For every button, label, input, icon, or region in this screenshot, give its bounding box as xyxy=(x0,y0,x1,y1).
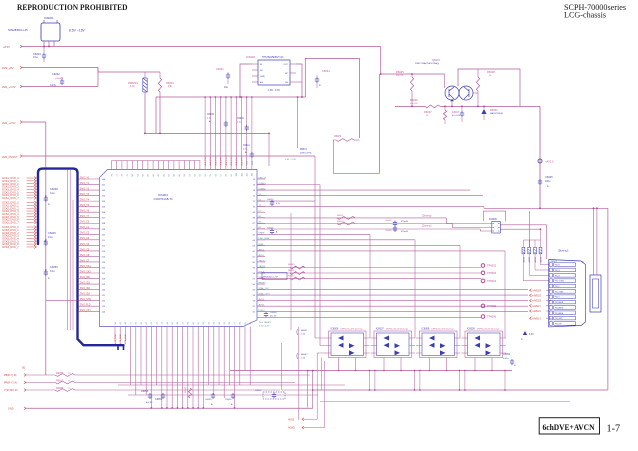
svg-text:10u: 10u xyxy=(224,86,229,89)
wire resistor array feeds xyxy=(523,228,541,240)
svg-text:+AV2E: +AV2E xyxy=(528,256,531,263)
bus labels GCK2_DVO[0:7] xyxy=(2,201,36,225)
svg-text:GND: GND xyxy=(260,76,265,78)
svg-text:TP6002: TP6002 xyxy=(487,264,497,268)
regulator IC6005 xyxy=(489,218,500,233)
resistor R6042 xyxy=(297,353,308,360)
svg-text:GCK2_DVO_7: GCK2_DVO_7 xyxy=(2,221,19,225)
svg-text:AVD_P33: AVD_P33 xyxy=(204,157,207,165)
capacitor C6039 xyxy=(385,226,408,233)
svg-text:0.47u: 0.47u xyxy=(50,84,57,87)
svg-text:AVD_P33: AVD_P33 xyxy=(220,157,223,165)
svg-text:AVD_RGB: AVD_RGB xyxy=(114,334,117,344)
polarity marker A 6.3V xyxy=(521,331,534,341)
capacitor C6001 xyxy=(216,67,230,89)
svg-text:DNF50-510-472 (Dummy): DNF50-510-472 (Dummy) xyxy=(477,329,499,331)
svg-text:+AVE1G: +AVE1G xyxy=(532,295,541,298)
svg-text:DVO_ID0: DVO_ID0 xyxy=(80,277,91,279)
svg-text:SD: SD xyxy=(22,368,26,370)
svg-text:DVO_C5: DVO_C5 xyxy=(80,249,90,251)
svg-text:C6045: C6045 xyxy=(545,175,553,179)
op-amp U IC6004 CXD9731GB encoder body xyxy=(100,170,258,327)
svg-text:IC6006: IC6006 xyxy=(331,328,339,331)
svg-text:C6039: C6039 xyxy=(385,230,392,232)
resistor R6040 xyxy=(185,386,192,398)
svg-text:DVO_ID2: DVO_ID2 xyxy=(80,288,91,290)
wire AVD_DVOUT xyxy=(2,155,315,159)
resistor R6028 xyxy=(476,69,495,106)
wire IC6005 outputs xyxy=(500,211,547,259)
svg-text:+AV2E: +AV2E xyxy=(522,256,525,263)
svg-text:C6051: C6051 xyxy=(503,353,511,356)
resistor R6025 xyxy=(396,70,414,106)
svg-text:C6053: C6053 xyxy=(141,390,149,393)
test point TP6004 xyxy=(481,279,496,283)
svg-text:DVE_+8V: DVE_+8V xyxy=(2,66,14,70)
svg-text:AVD_P33: AVD_P33 xyxy=(214,157,217,165)
wire IC6005 bridge xyxy=(484,211,506,221)
svg-text:C6056: C6056 xyxy=(225,399,232,401)
svg-text:DVO_C0: DVO_C0 xyxy=(80,222,90,224)
svg-text:+AVE1Y: +AVE1Y xyxy=(532,305,541,308)
resistor R6026 xyxy=(410,98,440,108)
wire thick digital video bus highlight xyxy=(38,169,124,350)
QFP top pin net labels xyxy=(204,157,254,165)
resistor R6004 xyxy=(158,72,174,134)
wire IC6002 output link xyxy=(305,58,359,138)
svg-text:DVO_CK2: DVO_CK2 xyxy=(80,271,91,273)
node DVE_+8V input wire xyxy=(2,66,160,72)
svg-text:GCK1_DVO_7: GCK1_DVO_7 xyxy=(2,196,19,200)
node SDTV label xyxy=(22,368,26,370)
svg-text:AVD_DVOUT: AVD_DVOUT xyxy=(2,155,18,159)
capacitor C6011 xyxy=(243,145,254,158)
wire base rail xyxy=(380,73,445,75)
capacitor C6013 xyxy=(267,199,280,206)
svg-text:0.5V - 2.4V: 0.5V - 2.4V xyxy=(285,159,296,161)
svg-text:C6001: C6001 xyxy=(216,67,224,71)
diode D6001 xyxy=(444,106,504,121)
svg-text:470p-M: 470p-M xyxy=(401,221,408,223)
svg-text:TP6005: TP6005 xyxy=(487,304,497,308)
svg-text:2SB1219A(2SB1219AQ): 2SB1219A(2SB1219AQ) xyxy=(415,62,439,65)
svg-text:DVO_Y1: DVO_Y1 xyxy=(80,183,90,185)
svg-text:DVO_ID1: DVO_ID1 xyxy=(80,282,91,284)
wire filter column verticals xyxy=(315,156,505,346)
regulator IC6002 xyxy=(246,55,296,92)
resistor R6063 value box xyxy=(262,273,287,280)
test point TP6003 xyxy=(481,271,496,275)
svg-text:DNF50-510-472 (Dummy): DNF50-510-472 (Dummy) xyxy=(432,329,454,331)
node +AV2.5 testpoint xyxy=(538,159,554,164)
svg-text:CXD9731GB-T4: CXD9731GB-T4 xyxy=(154,197,173,201)
svg-text:IC6008: IC6008 xyxy=(422,328,430,331)
svg-text:IC6005: IC6005 xyxy=(489,218,497,221)
resistor R6032 xyxy=(288,276,305,281)
svg-text:C6055: C6055 xyxy=(205,399,212,401)
svg-text:PB_DET: PB_DET xyxy=(555,323,563,325)
svg-text:GCK3_DVO_7: GCK3_DVO_7 xyxy=(2,245,19,249)
node AVSS output arrow xyxy=(288,418,317,422)
wire right rails down xyxy=(484,207,608,390)
svg-text:6.3V: 6.3V xyxy=(529,334,534,336)
bus labels GCK1_DVO[0:7] xyxy=(2,176,36,200)
svg-text:TP6004: TP6004 xyxy=(487,279,497,283)
svg-text:C6030: C6030 xyxy=(270,312,277,314)
svg-text:PB_GND: PB_GND xyxy=(555,318,563,320)
resistor R6030 xyxy=(288,264,305,269)
capacitor C6044 xyxy=(315,69,330,88)
svg-text:DVO_C2: DVO_C2 xyxy=(80,233,90,235)
svg-text:C6050: C6050 xyxy=(50,265,58,269)
svg-text:DVO_Y5: DVO_Y5 xyxy=(80,205,90,207)
svg-text:LCG-chassis: LCG-chassis xyxy=(564,10,607,20)
svg-text:C6042: C6042 xyxy=(52,72,60,76)
svg-text:AVD_P33: AVD_P33 xyxy=(209,157,212,165)
wire right-side nets xyxy=(257,185,528,318)
svg-text:IC6001: IC6001 xyxy=(44,16,54,20)
svg-text:100u: 100u xyxy=(545,180,551,183)
svg-text:DVO_STB: DVO_STB xyxy=(80,299,91,301)
svg-text:TP6003: TP6003 xyxy=(487,271,497,275)
filter IC6007 xyxy=(371,328,416,372)
QFP left pin wires and labels xyxy=(79,177,106,313)
svg-text:DVO_C6: DVO_C6 xyxy=(80,255,90,257)
capacitor C6056 xyxy=(225,393,235,406)
svg-text:DVO_Y7: DVO_Y7 xyxy=(80,216,90,218)
svg-text:AVD_RGB: AVD_RGB xyxy=(119,334,122,344)
filter IC6006 xyxy=(325,328,370,372)
svg-text:DVO_C3: DVO_C3 xyxy=(80,238,90,240)
svg-text:100 4%: 100 4% xyxy=(410,103,417,105)
voltage regulator IC6001 xyxy=(8,16,60,47)
svg-text:R6042: R6042 xyxy=(301,354,308,356)
node GND bottom input xyxy=(8,407,313,411)
svg-text:VD18: VD18 xyxy=(247,161,249,166)
svg-text:Y(SYNC) IN: Y(SYNC) IN xyxy=(4,389,18,392)
svg-text:NJM2845DL1-05: NJM2845DL1-05 xyxy=(8,28,28,32)
svg-text:AVD_RGB: AVD_RGB xyxy=(124,334,127,344)
svg-text:R6030: R6030 xyxy=(288,264,295,266)
resistor R6074 dim sense xyxy=(285,96,312,161)
svg-text:C6015: C6015 xyxy=(267,228,274,230)
svg-text:IC6009: IC6009 xyxy=(467,328,475,331)
svg-text:C6048: C6048 xyxy=(50,187,58,191)
svg-text:0.3V--1.2V: 0.3V--1.2V xyxy=(259,326,270,328)
svg-text:C6009: C6009 xyxy=(207,114,214,116)
svg-text:6chDVE+AVCN: 6chDVE+AVCN xyxy=(543,422,596,432)
svg-text:PB_R: PB_R xyxy=(555,265,560,267)
svg-text:(Dummy): (Dummy) xyxy=(422,226,432,228)
svg-text:R6032: R6032 xyxy=(288,276,295,278)
filter IC6008 xyxy=(416,328,461,372)
svg-text:C6057: C6057 xyxy=(255,390,262,392)
svg-text:1.8V - 3.3V: 1.8V - 3.3V xyxy=(268,89,280,92)
bus labels GCK3_DVO[0:7] xyxy=(2,225,36,249)
svg-text:DVO_Y3: DVO_Y3 xyxy=(80,194,90,196)
wire rail y133 above QFP xyxy=(144,133,270,167)
resistor network RM6001 xyxy=(128,72,147,134)
svg-text:8.5V --16V: 8.5V --16V xyxy=(69,29,86,33)
svg-text:TPS76915DBVT-Q1: TPS76915DBVT-Q1 xyxy=(262,56,284,59)
svg-text:R6063(2.2-7 P: R6063(2.2-7 P xyxy=(264,277,279,279)
resistor R6041 xyxy=(297,327,308,420)
svg-text:DVO_C1: DVO_C1 xyxy=(80,227,90,229)
sheet label box 6chDVE+AVCN xyxy=(539,418,599,434)
capacitor C6055 xyxy=(205,393,215,406)
svg-text:C6054: C6054 xyxy=(155,398,163,401)
svg-text:+AVE1C: +AVE1C xyxy=(532,310,541,313)
svg-text:PB_G: PB_G xyxy=(555,270,560,272)
wire y390 link xyxy=(282,343,313,390)
svg-text:56u 4V: 56u 4V xyxy=(270,316,277,318)
svg-text:DAC_A: DAC_A xyxy=(259,176,267,179)
svg-text:DNF50-510-472 (Dummy): DNF50-510-472 (Dummy) xyxy=(386,329,408,331)
svg-text:A 6.3V: A 6.3V xyxy=(146,401,153,404)
svg-text:Dim 780SP1: Dim 780SP1 xyxy=(259,322,272,324)
capacitor C6038 xyxy=(385,220,408,227)
svg-text:PR(R-Y) IN: PR(R-Y) IN xyxy=(4,382,17,385)
svg-text:PB_V: PB_V xyxy=(555,297,560,299)
capacitor C6042 xyxy=(50,72,64,87)
connector CN6002 tab xyxy=(590,275,601,312)
wire array to connector rows xyxy=(523,254,548,281)
capacitor C6030 xyxy=(264,312,277,318)
svg-text:Q6001: Q6001 xyxy=(432,58,440,62)
wire IC6005 input jogs xyxy=(446,218,492,231)
QFP top pin wires xyxy=(111,161,253,177)
QFP right pin wires and labels xyxy=(253,176,271,313)
wire QFP bottom pin drops xyxy=(131,327,251,409)
capacitor C6010 xyxy=(237,118,249,131)
svg-text:D6001: D6001 xyxy=(490,108,498,112)
svg-text:+AV2E: +AV2E xyxy=(540,256,543,263)
svg-text:C6010: C6010 xyxy=(237,118,244,120)
svg-text:(Dummy): (Dummy) xyxy=(422,216,432,218)
svg-text:IC6002: IC6002 xyxy=(246,55,255,59)
svg-text:+AVE1B: +AVE1B xyxy=(532,300,541,303)
wire filter ground rail xyxy=(230,370,512,408)
svg-text:0.1u: 0.1u xyxy=(33,55,39,59)
wire bottom rail B xyxy=(312,370,608,409)
svg-text:DVO_C4: DVO_C4 xyxy=(80,244,90,246)
svg-text:TP6006: TP6006 xyxy=(487,315,497,319)
capacitor C6051 xyxy=(503,353,516,367)
capacitor C6045 xyxy=(538,175,553,188)
svg-text:OUT: OUT xyxy=(283,64,288,66)
svg-text:(DIM 0.47R): (DIM 0.47R) xyxy=(300,153,312,155)
wire bottom rail y385 xyxy=(118,384,345,386)
svg-text:AVSS: AVSS xyxy=(288,418,295,421)
wire left filter columns xyxy=(317,353,325,428)
svg-text:AVS1: AVS1 xyxy=(259,254,265,257)
node input PB(B-Y) IN with resistor R6036 xyxy=(4,372,310,377)
svg-text:AVD_P33: AVD_P33 xyxy=(240,157,243,165)
capacitor C6050 xyxy=(44,265,59,280)
svg-text:DVO_FLD: DVO_FLD xyxy=(80,305,91,307)
svg-text:PB_Y/GND: PB_Y/GND xyxy=(555,281,565,283)
svg-text:AVD_+3.3V: AVD_+3.3V xyxy=(2,85,16,89)
svg-text:DVO_VSY: DVO_VSY xyxy=(80,310,91,312)
svg-text:EN: EN xyxy=(260,82,263,84)
svg-text:R6026: R6026 xyxy=(410,98,418,102)
svg-text:REPRODUCTION PROHIBITED: REPRODUCTION PROHIBITED xyxy=(17,2,128,12)
transistor Q6001 xyxy=(415,58,478,106)
svg-text:PB_C: PB_C xyxy=(555,286,560,288)
svg-text:VD18: VD18 xyxy=(252,161,254,166)
node input PR(R-Y) IN with resistor R6037 xyxy=(4,379,295,384)
svg-text:PB_B: PB_B xyxy=(555,275,560,277)
svg-text:C6013: C6013 xyxy=(267,199,274,201)
wire faint rail y401 xyxy=(320,401,570,403)
svg-text:AVD_+2.5V: AVD_+2.5V xyxy=(2,121,16,125)
svg-text:NC: NC xyxy=(260,70,264,72)
capacitor C6048 xyxy=(44,187,59,206)
svg-text:TEST0: TEST0 xyxy=(259,260,267,262)
connector CN6002 xyxy=(549,250,586,327)
svg-text:C6011: C6011 xyxy=(243,145,250,147)
svg-text:PB_AVER: PB_AVER xyxy=(555,301,564,304)
svg-text:DVO_Y4: DVO_Y4 xyxy=(80,200,90,202)
wire block1 input links xyxy=(315,338,325,346)
svg-text:C6049: C6049 xyxy=(48,231,56,235)
capacitor C6043 xyxy=(33,47,46,63)
capacitor C6054 xyxy=(155,393,165,401)
svg-text:C6038: C6038 xyxy=(385,220,392,222)
svg-text:DVO_Y6: DVO_Y6 xyxy=(80,211,90,213)
node AVDD_+3.3V input wire xyxy=(2,68,98,90)
svg-text:RESET: RESET xyxy=(259,282,267,284)
resistor array R6024 block xyxy=(522,240,543,263)
svg-text:+AVE1R: +AVE1R xyxy=(532,289,541,292)
resistor R6022 xyxy=(337,221,432,228)
wire base feed down xyxy=(379,74,381,173)
svg-text:R6028: R6028 xyxy=(487,70,495,74)
svg-text:DVO_C7: DVO_C7 xyxy=(80,260,90,262)
svg-text:IC6007: IC6007 xyxy=(376,328,384,331)
svg-text:+AV2E: +AV2E xyxy=(534,256,537,263)
svg-text:AGND: AGND xyxy=(288,427,295,430)
svg-text:AVD_P33: AVD_P33 xyxy=(225,157,228,165)
svg-text:IC6004: IC6004 xyxy=(158,193,168,197)
wire Q6001 collector loop xyxy=(458,69,520,106)
svg-text:GND: GND xyxy=(8,408,14,411)
filter IC6009 xyxy=(462,328,507,372)
svg-text:+8.5V: +8.5V xyxy=(3,45,10,49)
svg-text:0.1u: 0.1u xyxy=(50,192,55,195)
test point TP6006 xyxy=(481,315,496,319)
svg-text:MA2S72800L: MA2S72800L xyxy=(490,112,504,115)
svg-text:PB_CVBS: PB_CVBS xyxy=(555,291,564,293)
wire bus from y97 rail to QFP top pins xyxy=(204,96,252,169)
capacitor C6053 xyxy=(141,390,153,404)
capacitor C6049 xyxy=(44,231,57,246)
capacitor C6047 xyxy=(452,106,464,122)
svg-text:0.1u: 0.1u xyxy=(276,203,280,205)
svg-text:DVO_Y2: DVO_Y2 xyxy=(80,188,90,190)
node input Y(SYNC) IN with resistor R6038 xyxy=(4,387,280,392)
resistor R6029 xyxy=(333,135,379,173)
resistor R6021 xyxy=(337,215,432,219)
resistor R6027 xyxy=(424,106,447,124)
resistor R6031 xyxy=(288,270,305,274)
wire IC6002 surrounding xyxy=(156,64,305,134)
wire +8.5V branch down to Q6001 base rail xyxy=(380,47,382,75)
svg-text:R6031: R6031 xyxy=(288,270,295,272)
svg-text:(Dummy): (Dummy) xyxy=(558,250,568,253)
svg-text:R6029: R6029 xyxy=(334,135,342,138)
wire AVD_+2.5V xyxy=(2,121,46,375)
svg-text:DNF50-510-472 (Dummy): DNF50-510-472 (Dummy) xyxy=(341,329,363,331)
node +8.5V input wire xyxy=(3,45,381,49)
svg-text:DVO_CK1: DVO_CK1 xyxy=(80,266,91,268)
node arrows +AVE nets xyxy=(530,289,552,321)
svg-text:0.01u: 0.01u xyxy=(503,358,509,360)
capacitor C6015 xyxy=(267,228,278,235)
svg-text:+AVE1V: +AVE1V xyxy=(532,317,541,320)
wire QFP right vertical link xyxy=(290,213,292,330)
svg-text:4.7k: 4.7k xyxy=(130,85,135,88)
junction dots on bottom rail xyxy=(151,407,236,409)
svg-text:NC: NC xyxy=(285,73,289,75)
wire +AV2.5 feed down right xyxy=(539,106,541,208)
capacitor C6009 xyxy=(207,114,228,127)
svg-text:470p-M: 470p-M xyxy=(401,231,408,233)
svg-text:C6044: C6044 xyxy=(322,69,330,73)
svg-text:R6027: R6027 xyxy=(424,110,432,114)
svg-text:R6041: R6041 xyxy=(301,330,308,332)
test point TP6002 xyxy=(481,264,496,268)
svg-text:AVD_P33: AVD_P33 xyxy=(235,157,238,165)
svg-text:100 4%: 100 4% xyxy=(396,75,403,77)
svg-text:PB(B-Y) IN: PB(B-Y) IN xyxy=(4,374,17,377)
svg-text:C6047: C6047 xyxy=(452,111,460,114)
svg-text:PB_AVEB: PB_AVEB xyxy=(555,312,564,315)
wire left verticals xyxy=(46,170,78,330)
svg-text:R6025: R6025 xyxy=(396,70,404,74)
svg-text:47u 16V: 47u 16V xyxy=(452,115,461,117)
wire bottom rail y395 xyxy=(128,394,318,396)
svg-text:0.1u: 0.1u xyxy=(48,236,53,239)
svg-text:AVD_P33: AVD_P33 xyxy=(230,157,233,165)
svg-text:R6040: R6040 xyxy=(185,386,187,393)
svg-text:DVO_ID3: DVO_ID3 xyxy=(80,294,91,296)
capacitor C6057 dashed box xyxy=(255,390,285,399)
svg-text:0.1u: 0.1u xyxy=(50,270,55,273)
svg-text:R6074: R6074 xyxy=(300,149,307,151)
wire emitter rail y106 xyxy=(395,106,540,108)
svg-text:+AV2.5: +AV2.5 xyxy=(545,160,554,164)
node AGND output arrow xyxy=(288,426,325,430)
svg-text:DVO_Y0: DVO_Y0 xyxy=(80,177,90,179)
svg-text:1-7: 1-7 xyxy=(607,423,621,434)
wire rail above QFP top pins xyxy=(112,160,201,162)
test point TP6005 xyxy=(481,304,496,308)
QFP bottom pin wires xyxy=(114,321,252,344)
svg-text:PB_AVEG: PB_AVEG xyxy=(555,306,564,309)
